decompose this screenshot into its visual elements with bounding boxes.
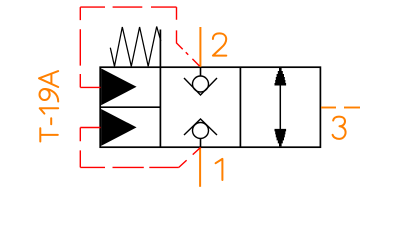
arrowhead up <box>275 68 287 86</box>
wire body rectangle <box>100 67 320 147</box>
wire divider middle/right section <box>239 67 241 147</box>
ball circle <box>193 76 209 92</box>
envelope top edge <box>80 6 176 8</box>
envelope diagonal to port 1 <box>179 148 201 168</box>
label port 1 <box>216 159 223 180</box>
envelope bottom edge <box>80 166 179 168</box>
ball circle <box>193 123 209 139</box>
check valve upper (ball and seat) <box>184 67 217 95</box>
port 2 line <box>199 27 201 67</box>
wire mid horizontal divider of pilot section <box>100 106 160 108</box>
wire arrow shaft <box>279 68 281 146</box>
double-headed flow arrow <box>275 68 287 146</box>
pilot connector lower <box>80 127 100 129</box>
pilot connector upper <box>80 86 100 88</box>
wire divider left section (extends up beside spring) <box>159 30 161 148</box>
envelope left edge upper <box>79 7 81 87</box>
pilot poppet triangle upper <box>102 69 136 104</box>
label port 3 <box>333 117 346 139</box>
wire stem ball to port 1 <box>200 139 202 148</box>
envelope right edge and diagonal to port 2 <box>177 7 201 67</box>
envelope left edge lower <box>79 128 81 168</box>
arrowhead down <box>275 129 287 147</box>
check valve lower (ball and seat) <box>184 119 217 147</box>
wire stem port 2 to ball <box>200 67 202 76</box>
port 3 line (dashed) <box>321 107 360 109</box>
label cavity T-19A (rotated) <box>39 71 58 141</box>
pilot poppet triangle lower <box>102 110 136 145</box>
cartridge envelope (red dashed) <box>80 7 200 167</box>
port 1 line <box>199 148 201 187</box>
seat V <box>184 78 217 95</box>
label port 2 <box>213 33 226 55</box>
valve body outline <box>100 30 320 148</box>
spring (zigzag) <box>110 27 161 67</box>
seat V <box>184 119 217 135</box>
